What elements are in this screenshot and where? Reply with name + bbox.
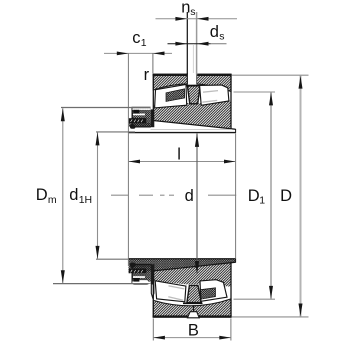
svg-text:1: 1 (259, 194, 265, 206)
roller left (lower section) (155, 281, 186, 302)
locating pin left edge (186, 12, 188, 75)
label n_s (181, 0, 195, 18)
extension line D_1 bottom (234, 298, 276, 300)
inner ring centre rib (upper) (184, 86, 200, 104)
locknut chamfer corner (lower) (130, 263, 135, 267)
locknut chamfer corner (upper) (130, 124, 135, 128)
svg-text:c: c (132, 29, 140, 47)
bearing left face line (upper) (152, 74, 154, 121)
extension line B left (152, 318, 154, 340)
svg-text:D: D (248, 187, 260, 205)
svg-text:r: r (144, 66, 150, 84)
svg-text:1: 1 (141, 37, 147, 49)
dimension D_1 line (269, 92, 273, 299)
extension line D_m top (61, 107, 151, 109)
bearing right face line (lower) (230, 262, 232, 317)
label d_s (210, 23, 225, 43)
extension line sleeve left end (127, 53, 129, 266)
extension line D_m bottom (53, 283, 149, 285)
roller right (lower section) (200, 280, 227, 302)
thread zone sleeve/nut (upper) (129, 118, 147, 123)
label l (177, 145, 181, 163)
bearing right face line (upper) (230, 74, 232, 129)
dimension d_1H line (96, 132, 100, 259)
extension line D bottom (232, 316, 309, 318)
dimension D_m line (61, 108, 65, 283)
sleeve shank hatch under nut (upper) (129, 123, 151, 127)
dimension d line (195, 133, 199, 274)
locknut body (upper) (132, 107, 151, 127)
extension line d_1H bottom (96, 258, 129, 260)
inner ring centre rib (lower) (183, 285, 203, 303)
lubrication groove notch (lower outer ring) (188, 305, 200, 318)
lock washer with bent tab (lower) (151, 264, 155, 297)
svg-text:s: s (219, 31, 224, 43)
extension line sleeve right end (235, 134, 237, 259)
dimension c_1 line (104, 52, 172, 56)
adapter sleeve solid section (lower) crosshatched (129, 259, 236, 274)
dimension B line (153, 336, 231, 340)
svg-text:D: D (36, 186, 48, 204)
label c_1 (132, 29, 147, 49)
dimension l line (128, 160, 235, 164)
inner ring tapered bore line (lower) (152, 262, 236, 271)
svg-text:m: m (48, 194, 57, 206)
bearing left face line (lower) (152, 270, 154, 317)
dimension d_s line (168, 42, 227, 46)
label D_1 (248, 187, 266, 207)
label D (280, 187, 292, 205)
svg-text:s: s (190, 6, 195, 18)
svg-text:l: l (177, 145, 181, 163)
inner ring body (lower section) (152, 263, 231, 287)
label D_m (36, 186, 57, 206)
cage section in left roller (upper) (166, 89, 185, 102)
thread zone sleeve/nut (lower) (129, 268, 147, 273)
outer ring (lower section) with crosshatch (153, 299, 231, 317)
label d_1H (69, 186, 92, 206)
extension line c_1 right (bearing face) (152, 53, 154, 73)
locknut slot with washer tab (lower) (132, 276, 150, 283)
cage ghost lines in left roller (lower) (168, 286, 184, 300)
locknut bottom chamfer outline (lower) (132, 280, 148, 285)
lock washer (upper) (151, 109, 155, 127)
svg-text:d: d (69, 186, 78, 204)
roller left (upper section) (155, 84, 187, 108)
cage ghost lines in right roller (upper) (202, 91, 218, 103)
locknut slot with washer tab (upper) (132, 108, 150, 115)
locating pin right edge (193, 12, 196, 75)
inner ring tapered bore line (upper) (152, 120, 236, 129)
svg-text:1H: 1H (79, 194, 92, 206)
cage section in right roller (lower) (201, 288, 216, 299)
horizontal centre axis (dash-dot) (111, 194, 236, 196)
label r (144, 66, 150, 84)
extension line B right (230, 318, 232, 340)
outer ring outer surface thick line (lower) (153, 315, 232, 317)
inner ring body (upper section) (152, 101, 231, 129)
dimension D line (299, 76, 303, 317)
svg-text:d: d (185, 187, 194, 205)
svg-text:D: D (280, 187, 292, 205)
roller right (upper section) (200, 85, 229, 105)
adapter sleeve bore line (upper) (129, 129, 236, 133)
locknut top face shadow line (upper) (132, 106, 151, 108)
lubrication hole in outer ring (upper) (187, 73, 196, 85)
svg-text:n: n (181, 0, 190, 16)
extension line d_1H top (96, 131, 135, 133)
label B (188, 321, 199, 339)
svg-text:d: d (210, 23, 219, 41)
label d (185, 187, 194, 205)
extension line D top (232, 74, 309, 76)
outer ring (upper section) with crosshatch (153, 74, 232, 91)
extension line D_1 top (234, 91, 276, 93)
locknut body (lower) (132, 265, 151, 285)
dimension n_s line (156, 17, 238, 21)
svg-text:B: B (188, 321, 199, 339)
